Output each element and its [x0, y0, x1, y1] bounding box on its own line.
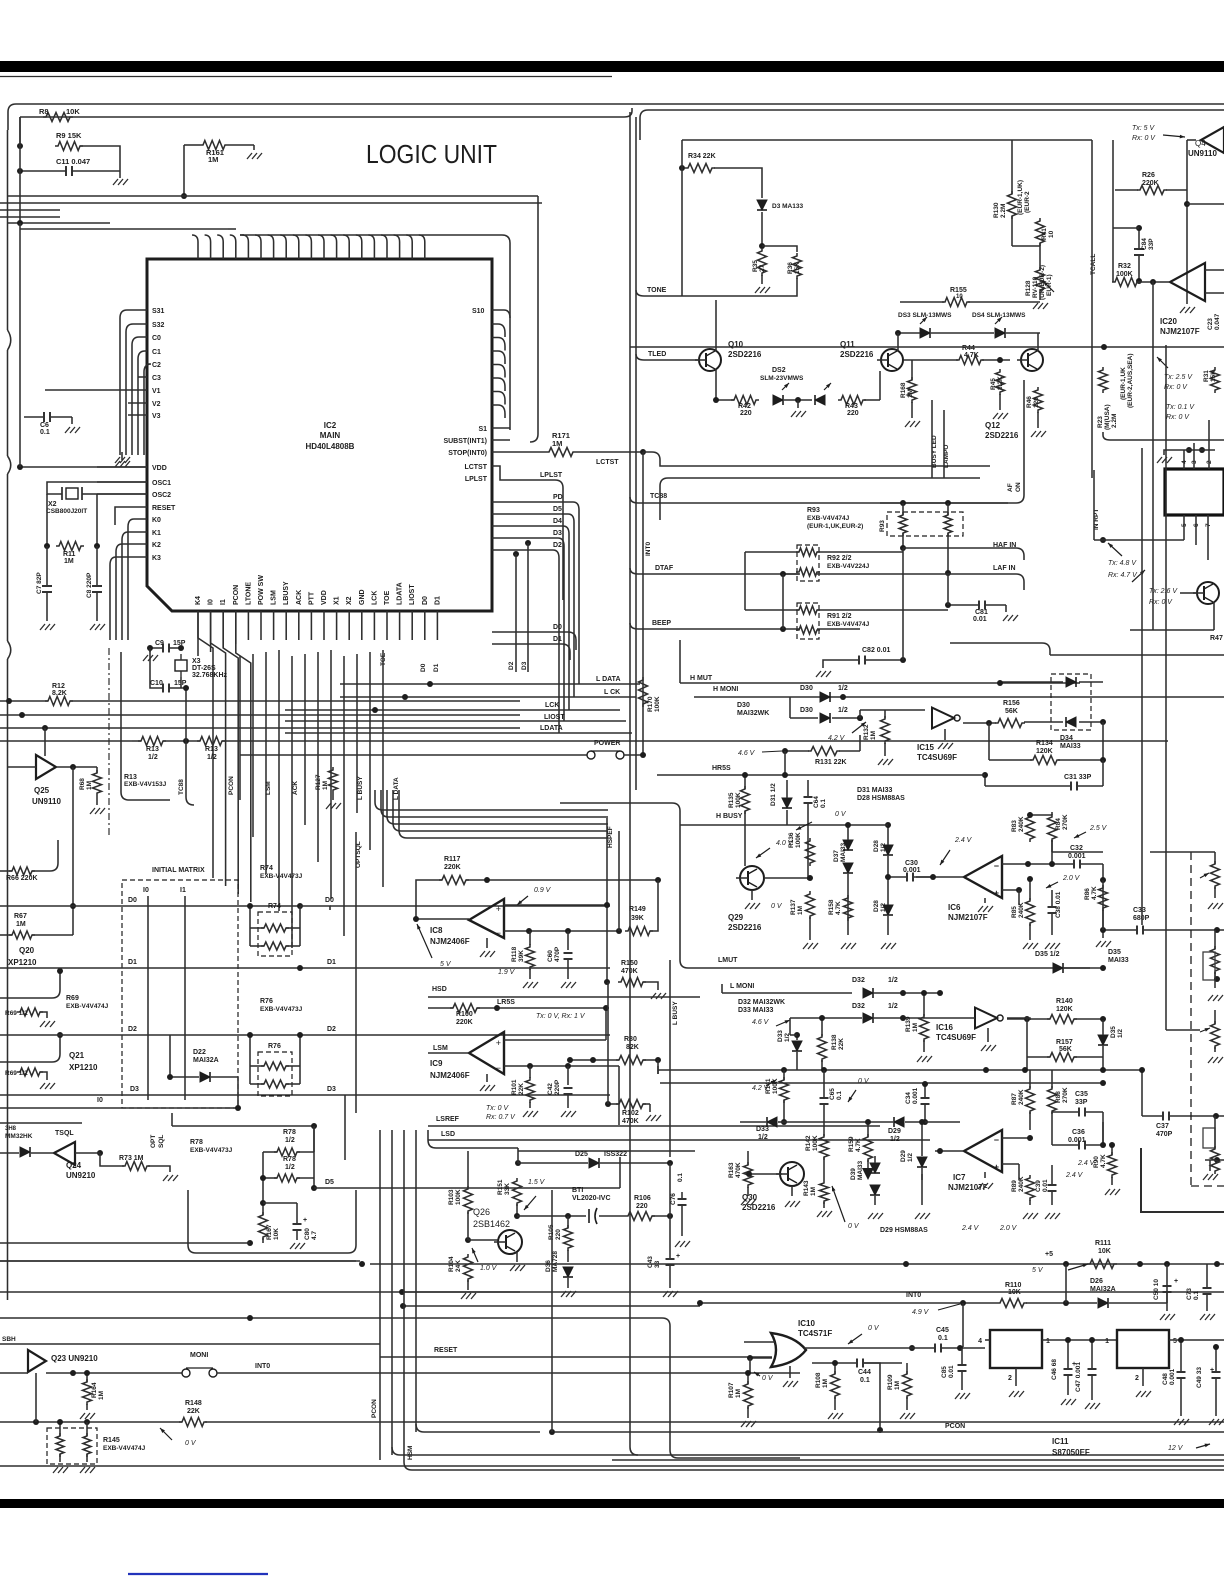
- svg-text:IC20: IC20: [1160, 317, 1177, 326]
- svg-text:D29: D29: [900, 1150, 907, 1162]
- svg-text:EXB-V4V473J: EXB-V4V473J: [260, 1006, 303, 1013]
- resistor R8: [43, 113, 73, 122]
- svg-text:LSD: LSD: [441, 1131, 455, 1138]
- svg-text:C23: C23: [1207, 318, 1214, 330]
- resistor R31 rot: [1211, 367, 1220, 393]
- transistor Q29: [740, 866, 764, 890]
- svg-text:+: +: [496, 1038, 501, 1048]
- transistor Q30: [780, 1162, 804, 1186]
- svg-text:15K: 15K: [1210, 370, 1217, 382]
- svg-text:R86: R86: [1084, 888, 1091, 900]
- wire Q10-Q11 base rail: [716, 399, 734, 401]
- svg-text:R32: R32: [1118, 263, 1131, 270]
- svg-text:R128: R128: [1025, 280, 1032, 296]
- svg-text:0.1: 0.1: [938, 1335, 948, 1342]
- svg-text:C80: C80: [304, 1228, 311, 1240]
- svg-text:0 V: 0 V: [762, 1375, 774, 1382]
- wire R91 wires: [745, 609, 799, 611]
- ground D36: [567, 1278, 569, 1288]
- svg-text:1M: 1M: [86, 781, 93, 790]
- wire IC10 in top: [744, 1341, 775, 1343]
- svg-text:D3: D3: [327, 1086, 336, 1093]
- transistor Q right edge: [1197, 582, 1219, 604]
- resistor R151: [513, 1178, 522, 1206]
- svg-text:RV-110: RV-110: [1032, 276, 1039, 298]
- svg-text:HR5S: HR5S: [712, 765, 731, 772]
- wire R8 left: [19, 117, 21, 146]
- svg-text:2.2M: 2.2M: [1000, 204, 1007, 218]
- wire R103: [467, 1163, 469, 1188]
- svg-text:R66 220K: R66 220K: [6, 875, 38, 882]
- svg-text:(EUR-2,AUS,SEA): (EUR-2,AUS,SEA): [1127, 353, 1134, 408]
- wire R80: [570, 1059, 619, 1061]
- svg-text:(M(USA): (M(USA): [1104, 404, 1111, 430]
- wire R26: [1115, 189, 1138, 191]
- ground R68: [96, 796, 98, 805]
- connector arc left 2: [8, 456, 11, 474]
- svg-text:Q29: Q29: [728, 913, 744, 922]
- svg-text:HSD: HSD: [432, 986, 447, 993]
- svg-text:R93: R93: [879, 520, 886, 532]
- svg-text:L MONI: L MONI: [730, 983, 754, 990]
- svg-text:1M: 1M: [870, 731, 877, 740]
- svg-text:L CK: L CK: [604, 689, 620, 696]
- bus rail LCK: [285, 709, 620, 711]
- bus line y347: [630, 346, 1224, 348]
- capacitor C60: [567, 931, 569, 950]
- svg-text:R13: R13: [205, 746, 218, 753]
- svg-text:220K: 220K: [1142, 180, 1159, 187]
- svg-text:IC2: IC2: [324, 421, 337, 430]
- svg-text:V2: V2: [152, 401, 161, 408]
- arrow to Q4: [1163, 135, 1185, 137]
- resistor R155: [942, 298, 970, 307]
- svg-text:PCON: PCON: [228, 776, 235, 795]
- wire R161 left: [184, 144, 200, 146]
- wire C9 left ground: [150, 648, 163, 652]
- resistor R138: [818, 1034, 827, 1062]
- svg-text:0.01: 0.01: [973, 616, 987, 623]
- blue reference line: [128, 1573, 268, 1575]
- ground R69a: [40, 1012, 47, 1018]
- svg-text:D2: D2: [553, 542, 562, 549]
- trimpot RT3: [1211, 1021, 1220, 1049]
- svg-text:R91 2/2: R91 2/2: [827, 613, 852, 620]
- svg-text:1.5 V: 1.5 V: [528, 1179, 546, 1186]
- wire R106 right: [652, 1215, 670, 1217]
- wire IC10 out: [804, 1347, 934, 1349]
- wire R145 grounds: [59, 1454, 61, 1462]
- wire IC9 minus wire: [504, 1065, 619, 1067]
- svg-text:R78: R78: [190, 1139, 203, 1146]
- wire R34 left node: [679, 165, 685, 171]
- svg-text:−: −: [994, 1135, 999, 1145]
- wire IC6 plus wire: [1002, 889, 1019, 891]
- svg-text:R118: R118: [511, 946, 518, 962]
- wire bus lines bottom-left: [0, 1260, 360, 1262]
- svg-text:R134: R134: [1036, 740, 1053, 747]
- resistor R140: [1047, 1015, 1077, 1024]
- wire R111 nodes: [1063, 1261, 1069, 1267]
- svg-text:D3: D3: [130, 1086, 139, 1093]
- svg-text:C3: C3: [152, 375, 161, 382]
- wire R145 tops: [59, 1422, 61, 1436]
- svg-text:C39: C39: [1035, 1180, 1042, 1192]
- wire D3 down: [761, 212, 763, 246]
- resistor R103: [464, 1186, 473, 1214]
- svg-text:10: 10: [1048, 230, 1055, 238]
- svg-text:270K: 270K: [1062, 814, 1069, 830]
- svg-text:2SD2216: 2SD2216: [728, 350, 762, 359]
- resistor R73: [122, 1162, 150, 1171]
- wire R74 net: [249, 906, 251, 946]
- svg-text:R117: R117: [444, 856, 460, 863]
- svg-text:100K: 100K: [795, 832, 802, 848]
- wire bus corner feed: [228, 228, 236, 230]
- arrow tx25: [1157, 357, 1168, 368]
- resistor R170: [639, 677, 648, 707]
- wire BT1: [585, 1215, 586, 1217]
- wire R117 right: [466, 879, 658, 881]
- inverter IC16: [975, 1008, 997, 1029]
- wire VDD rail: [20, 466, 147, 468]
- resistor R89: [1026, 1175, 1035, 1201]
- svg-text:NJM2107F: NJM2107F: [948, 913, 988, 922]
- wire to connector: [1103, 432, 1224, 440]
- ground R85: [1029, 924, 1031, 940]
- capacitor C65: [820, 1097, 829, 1099]
- wire bottom rails right: [612, 1459, 1224, 1461]
- wire IC9 output: [428, 1052, 469, 1054]
- svg-text:TCALL: TCALL: [1090, 254, 1097, 275]
- svg-text:D2: D2: [128, 1026, 137, 1033]
- arrow tx26: [1132, 570, 1145, 582]
- node D3 branch: [525, 540, 531, 546]
- svg-text:2: 2: [1135, 1375, 1139, 1382]
- svg-text:+: +: [496, 904, 501, 914]
- svg-text:Q23 UN9210: Q23 UN9210: [51, 1354, 98, 1363]
- svg-text:LIOST: LIOST: [544, 714, 565, 721]
- wire IC20 output: [1160, 281, 1170, 283]
- ground IC9: [486, 1074, 488, 1082]
- svg-text:LMUT: LMUT: [718, 957, 738, 964]
- svg-text:0.047: 0.047: [1214, 313, 1221, 330]
- ground IC8: [486, 938, 488, 948]
- svg-text:VL2020-IVC: VL2020-IVC: [572, 1195, 611, 1202]
- wire C10 riser: [185, 688, 187, 741]
- wire R92 wires: [745, 551, 799, 553]
- section border dash-dot: [108, 648, 110, 838]
- svg-text:LCK: LCK: [545, 702, 559, 709]
- wire node 1187/204: [1184, 201, 1190, 207]
- capacitor C30: [906, 873, 908, 882]
- svg-text:5: 5: [1173, 1338, 1177, 1345]
- wire D0 row: [0, 905, 300, 907]
- svg-text:R110: R110: [1005, 1282, 1021, 1289]
- wire IC16 in: [940, 1017, 975, 1019]
- resistor R150: [618, 978, 646, 987]
- wire C76: [681, 1192, 683, 1198]
- wire R148 rail: [0, 1421, 182, 1423]
- svg-text:TOE: TOE: [384, 590, 391, 605]
- dashed diode box D34: [1051, 674, 1091, 730]
- svg-text:C32: C32: [1070, 845, 1083, 852]
- op-amp Q24: [54, 1142, 75, 1165]
- wire bus y1321: [0, 1317, 662, 1319]
- svg-text:33P: 33P: [1148, 238, 1155, 250]
- svg-text:240K: 240K: [1018, 1089, 1025, 1105]
- svg-text:1/2: 1/2: [838, 685, 848, 692]
- resistor R93b: [944, 512, 952, 536]
- ground R45: [999, 394, 1001, 410]
- wire IC8 output: [416, 918, 469, 920]
- svg-text:R100: R100: [456, 1011, 473, 1018]
- svg-text:INT0: INT0: [906, 1292, 921, 1299]
- svg-text:TC4S71F: TC4S71F: [798, 1329, 832, 1338]
- wire R130 bottom: [1011, 216, 1013, 246]
- wire D5 line: [314, 1187, 620, 1189]
- svg-text:1/2: 1/2: [758, 1134, 768, 1141]
- svg-text:8.2K: 8.2K: [52, 690, 67, 697]
- svg-text:R23: R23: [1097, 416, 1104, 428]
- svg-text:R140: R140: [1056, 998, 1073, 1005]
- wire R34 right: [714, 168, 762, 198]
- svg-text:EXB-V4V224J: EXB-V4V224J: [827, 563, 870, 570]
- svg-text:S87050EF: S87050EF: [1052, 1448, 1090, 1457]
- svg-text:4.9 V: 4.9 V: [912, 1309, 930, 1316]
- resistor R168: [908, 377, 917, 403]
- svg-text:NJM2107F: NJM2107F: [1160, 327, 1200, 336]
- wire DS3/DS4 rail: [898, 332, 920, 334]
- svg-text:R106: R106: [634, 1195, 651, 1202]
- svg-text:10: 10: [956, 294, 963, 300]
- svg-text:Tx: 0.1 V: Tx: 0.1 V: [1166, 404, 1195, 411]
- wire X2 left: [47, 482, 147, 494]
- svg-text:TC4SU69F: TC4SU69F: [936, 1033, 976, 1042]
- svg-text:R78: R78: [283, 1129, 296, 1136]
- svg-text:D33: D33: [756, 1126, 769, 1133]
- resistor R68: [93, 770, 102, 796]
- svg-text:PTT: PTT: [308, 591, 315, 605]
- IC2 left bus riser: [240, 234, 244, 236]
- svg-text:R143: R143: [803, 1180, 810, 1196]
- svg-text:I0: I0: [97, 1097, 103, 1104]
- pot R128 RV-110: [1036, 267, 1045, 293]
- resistor R13a: [138, 737, 166, 746]
- diode D3: [757, 200, 767, 210]
- svg-text:UN9110: UN9110: [1188, 149, 1217, 158]
- svg-text:R69: R69: [66, 995, 79, 1002]
- svg-text:2: 2: [1008, 1375, 1012, 1382]
- svg-text:0.1: 0.1: [836, 1091, 843, 1100]
- svg-text:K4: K4: [195, 596, 202, 605]
- node q23 line to ic10: [749, 1358, 751, 1373]
- svg-text:R145: R145: [103, 1437, 120, 1444]
- resistor R90v: [1108, 1152, 1117, 1178]
- ground IC2 aux: [121, 452, 123, 460]
- resistor R106: [625, 1212, 655, 1221]
- wire D26 right: [1109, 1302, 1167, 1304]
- svg-text:K0: K0: [152, 517, 161, 524]
- wire TCALL vertical: [1091, 140, 1093, 478]
- svg-text:AF: AF: [1007, 483, 1014, 492]
- ground IC20: [1186, 300, 1188, 304]
- svg-text:1: 1: [1046, 1338, 1050, 1345]
- transistor Q12: [1021, 349, 1043, 371]
- svg-text:D3 MA133: D3 MA133: [772, 203, 803, 210]
- svg-text:D5: D5: [553, 506, 562, 513]
- ground R168: [911, 402, 913, 418]
- svg-text:D39: D39: [850, 1168, 857, 1180]
- resistor R86: [1099, 885, 1108, 911]
- dashed box R145: [47, 1428, 97, 1464]
- svg-text:IC8: IC8: [430, 926, 443, 935]
- wire R142: [823, 1157, 825, 1180]
- wire R167: [262, 1203, 264, 1215]
- wire R164 top: [86, 1373, 88, 1382]
- svg-text:R74: R74: [268, 903, 281, 910]
- svg-text:LAF IN: LAF IN: [993, 565, 1016, 572]
- svg-text:ISS322: ISS322: [604, 1151, 627, 1158]
- svg-text:D36: D36: [545, 1260, 552, 1272]
- wire box2 pins: [1142, 1368, 1144, 1386]
- svg-text:BTI: BTI: [572, 1187, 583, 1194]
- wire left rail x20 down: [19, 223, 21, 467]
- svg-text:4: 4: [978, 1338, 982, 1345]
- svg-text:Q30: Q30: [742, 1193, 758, 1202]
- wire IC20 base lines: [1205, 269, 1224, 271]
- svg-text:H MUT: H MUT: [690, 675, 713, 682]
- wire rail 1083: [660, 1082, 1103, 1084]
- wire matrix riser right: [344, 1095, 346, 1160]
- svg-text:2.4 V: 2.4 V: [1065, 1172, 1084, 1179]
- svg-text:D2: D2: [508, 661, 515, 670]
- svg-text:D4: D4: [553, 518, 562, 525]
- svg-text:INT0: INT0: [645, 542, 652, 556]
- wire Q29 base: [764, 877, 810, 879]
- wire RT1 top: [1214, 852, 1216, 864]
- wire LCTST out: [643, 452, 990, 466]
- svg-text:RESET: RESET: [152, 505, 176, 512]
- svg-text:INT0: INT0: [255, 1363, 270, 1370]
- resistor R118: [529, 931, 531, 945]
- svg-text:S10: S10: [472, 308, 485, 315]
- wire C80: [263, 1202, 297, 1204]
- svg-text:R142: R142: [805, 1135, 812, 1151]
- resistor R102: [616, 1100, 646, 1109]
- wire rail y1264: [370, 1263, 1224, 1265]
- wire C11: [20, 170, 66, 172]
- wire R9 right: [80, 146, 120, 171]
- ground R109: [906, 1397, 908, 1410]
- resistor R42: [731, 396, 759, 405]
- svg-text:R127: R127: [315, 774, 322, 790]
- svg-text:(EUR-2: (EUR-2: [1024, 191, 1031, 213]
- wire C49: [1215, 1347, 1217, 1371]
- wire riser x416: [415, 1130, 417, 1432]
- wire dashed box inner: [1205, 1159, 1224, 1161]
- capacitor C36: [1078, 1141, 1080, 1150]
- svg-text:100K: 100K: [812, 1135, 819, 1151]
- wire optsql vertical: [171, 1113, 173, 1126]
- svg-text:LCK: LCK: [371, 591, 378, 605]
- svg-text:1M: 1M: [98, 1391, 105, 1400]
- svg-text:HD40L4808B: HD40L4808B: [306, 442, 355, 451]
- svg-text:EUR-1): EUR-1): [1046, 274, 1053, 296]
- svg-text:VDD: VDD: [152, 465, 167, 472]
- wire C9 to X3: [169, 647, 181, 649]
- capacitor C9: [162, 644, 164, 653]
- svg-text:D25: D25: [575, 1151, 588, 1158]
- svg-text:R102: R102: [622, 1110, 639, 1117]
- bottom border thick bar: [0, 1499, 1224, 1508]
- wire R78 rails: [262, 1152, 264, 1203]
- capacitor C35: [1078, 1108, 1080, 1117]
- svg-text:L BUSY: L BUSY: [672, 1001, 679, 1025]
- wire R66 riser: [0, 870, 12, 872]
- wire net y643: [950, 642, 1035, 644]
- wire riser x619: [618, 831, 620, 931]
- ground Q29: [751, 890, 753, 900]
- resistor R66: [9, 867, 35, 875]
- svg-text:IC11: IC11: [1052, 1437, 1069, 1446]
- svg-text:C35: C35: [1075, 1091, 1088, 1098]
- svg-text:D33 MAI33: D33 MAI33: [738, 1007, 774, 1014]
- capacitor C84: [1134, 248, 1144, 250]
- svg-text:R141: R141: [765, 1078, 772, 1094]
- svg-text:100K: 100K: [455, 1189, 462, 1205]
- svg-text:IC10: IC10: [798, 1319, 815, 1328]
- svg-text:C49 33: C49 33: [1196, 1367, 1203, 1388]
- wire TC88 riser: [186, 741, 194, 805]
- wire R73: [100, 1153, 124, 1166]
- ground R108: [834, 1397, 836, 1410]
- svg-text:Q25: Q25: [34, 786, 50, 795]
- resistor R69a: [17, 1008, 43, 1016]
- wire R110 right: [1026, 1302, 1097, 1304]
- resistor R145a: [56, 1433, 64, 1457]
- svg-text:MAIN: MAIN: [320, 431, 341, 440]
- svg-text:C31 33P: C31 33P: [1064, 774, 1092, 781]
- wire D2 row: [0, 1034, 610, 1036]
- svg-text:D35: D35: [1110, 1026, 1117, 1038]
- svg-text:HSPEF: HSPEF: [607, 826, 614, 848]
- svg-text:IC6: IC6: [948, 903, 961, 912]
- svg-text:10K: 10K: [66, 107, 80, 116]
- wire D30b rail: [790, 717, 818, 719]
- svg-text:Tx: 5 V: Tx: 5 V: [1132, 125, 1156, 132]
- svg-text:D5: D5: [325, 1179, 334, 1186]
- arrow in-rpt: [1108, 543, 1122, 556]
- svg-text:R73 1M: R73 1M: [119, 1155, 144, 1162]
- wire R171 line LCTST: [492, 451, 546, 453]
- resistor R26: [1137, 186, 1167, 195]
- ground IC15: [944, 729, 946, 740]
- svg-text:R155: R155: [950, 287, 967, 294]
- svg-text:SUBST(INT1): SUBST(INT1): [443, 438, 487, 445]
- diode D34b: [1066, 717, 1076, 727]
- dashed box R76: [258, 1052, 292, 1096]
- wire matrix col I1: [184, 896, 186, 1100]
- box corner bottom right: [1141, 1148, 1224, 1212]
- svg-text:1/2: 1/2: [890, 1136, 900, 1143]
- svg-text:D29: D29: [888, 1128, 901, 1135]
- svg-text:2SD2216: 2SD2216: [840, 350, 874, 359]
- ground DS2: [797, 400, 799, 408]
- wire riser x428: [428, 1130, 518, 1148]
- svg-text:D32: D32: [852, 1003, 865, 1010]
- svg-text:0 V: 0 V: [858, 1078, 870, 1085]
